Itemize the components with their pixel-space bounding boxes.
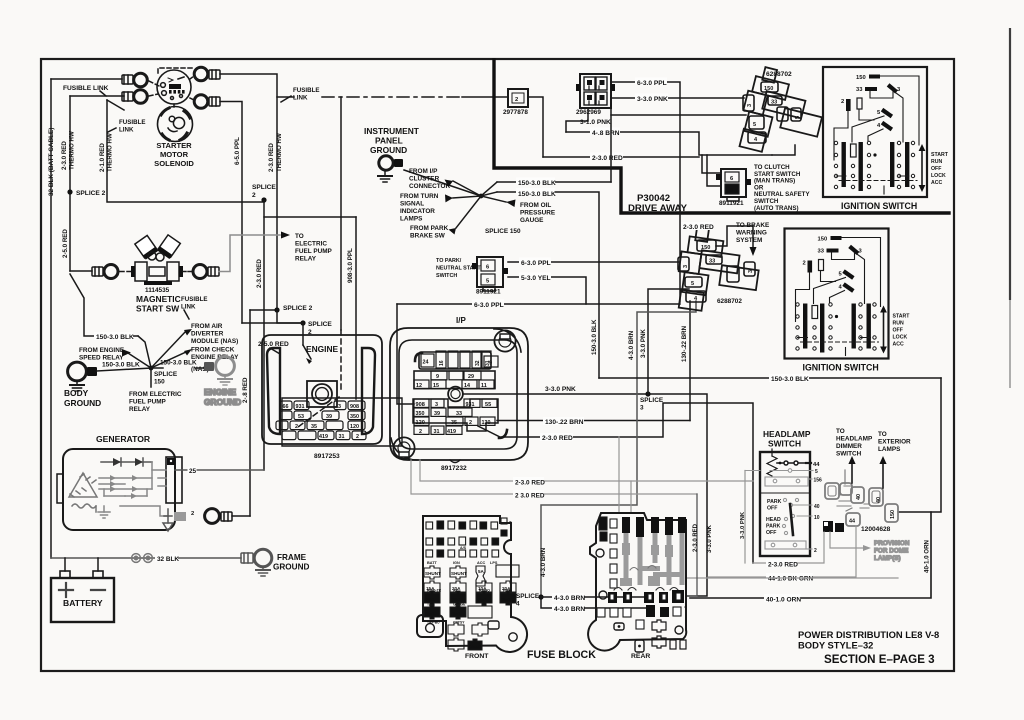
svg-text:SPLICE: SPLICE — [154, 371, 178, 378]
svg-text:44: 44 — [813, 462, 820, 468]
svg-text:DIVERTER: DIVERTER — [191, 331, 224, 338]
svg-text:TO: TO — [836, 428, 845, 435]
svg-text:2: 2 — [356, 434, 359, 440]
svg-text:2977878: 2977878 — [503, 109, 528, 116]
svg-text:8911921: 8911921 — [719, 200, 744, 207]
SEC-CENTER — [262, 60, 949, 596]
dashed links to solenoid — [149, 81, 159, 86]
svg-text:8911921: 8911921 — [476, 289, 501, 296]
wire 40-1.0 ORN — [690, 512, 931, 598]
wire 2-3.0 RED gray b — [411, 460, 697, 494]
svg-text:FUSIBLE: FUSIBLE — [293, 87, 319, 94]
ring terminal MR — [193, 265, 207, 279]
dashed diag — [340, 330, 342, 393]
svg-text:3-3.0 PNK: 3-3.0 PNK — [640, 329, 647, 358]
svg-text:39: 39 — [326, 414, 332, 420]
svg-text:14: 14 — [464, 383, 470, 389]
svg-text:ENGINE: ENGINE — [204, 387, 237, 397]
svg-text:TO PARK/: TO PARK/ — [436, 258, 462, 264]
svg-text:GAUGE: GAUGE — [520, 217, 544, 224]
svg-text:LOCK: LOCK — [931, 173, 946, 179]
svg-text:IGNITION SWITCH: IGNITION SWITCH — [841, 201, 917, 211]
svg-text:350: 350 — [416, 411, 425, 417]
wire dashed long to 2977878 — [322, 96, 462, 98]
svg-text:SPLICE 150: SPLICE 150 — [485, 228, 521, 235]
svg-text:40: 40 — [814, 504, 820, 510]
svg-text:THERMO HW: THERMO HW — [276, 133, 283, 172]
wire 44-1.0 DK GRN — [708, 526, 856, 583]
svg-text:OFF: OFF — [766, 530, 776, 536]
svg-text:2: 2 — [814, 548, 817, 554]
svg-text:REAR: REAR — [631, 653, 650, 660]
svg-text:130-.22 BRN: 130-.22 BRN — [681, 325, 688, 362]
svg-text:2-3.0 RED: 2-3.0 RED — [592, 155, 623, 162]
svg-text:LAMPS: LAMPS — [400, 216, 423, 223]
ears — [494, 329, 521, 352]
svg-text:419: 419 — [447, 429, 456, 435]
svg-text:SYSTEM: SYSTEM — [736, 237, 762, 244]
wire 3-3.0 PNK from IP — [463, 394, 707, 596]
svg-text:BRAKE SW: BRAKE SW — [410, 233, 446, 240]
wire 3-1.0 PNK — [566, 108, 588, 132]
svg-text:12: 12 — [416, 383, 422, 389]
svg-text:FUSIBLE: FUSIBLE — [181, 296, 207, 303]
svg-text:6-3.0 PPL: 6-3.0 PPL — [521, 260, 551, 267]
ring terminal L2 — [122, 90, 147, 104]
connector 2962969 — [576, 74, 615, 116]
svg-text:STARTER: STARTER — [156, 141, 192, 150]
svg-text:ACC: ACC — [931, 180, 942, 186]
svg-text:419: 419 — [319, 434, 328, 440]
SEC-LEFT — [48, 67, 339, 622]
connector 6288702 upper — [735, 64, 831, 163]
svg-text:LAMP(S): LAMP(S) — [874, 555, 901, 562]
svg-text:9: 9 — [436, 374, 439, 380]
svg-text:130: 130 — [482, 420, 491, 426]
svg-text:4-3.0 BRN: 4-3.0 BRN — [628, 330, 635, 360]
wire rear block to 150 sq — [686, 577, 898, 579]
frame ground ring — [241, 553, 253, 563]
svg-text:SIGNAL: SIGNAL — [400, 201, 424, 208]
svg-text:LINK: LINK — [119, 127, 134, 134]
svg-text:150-3.0 BLK: 150-3.0 BLK — [102, 362, 140, 369]
svg-text:3-3.0 PNK: 3-3.0 PNK — [707, 524, 713, 553]
svg-text:120: 120 — [350, 424, 359, 430]
svg-text:3-3.0 PNK: 3-3.0 PNK — [545, 386, 576, 393]
wire 6-3.0 PPL lower — [397, 303, 680, 305]
wire ring to splice150 — [97, 368, 151, 371]
svg-text:6-3.0 PPL: 6-3.0 PPL — [637, 80, 667, 87]
wire 150-3.0 BLK a — [497, 181, 611, 183]
wire 2-3.0 RED from IP — [478, 403, 753, 563]
svg-text:RELAY: RELAY — [129, 406, 151, 413]
svg-text:10: 10 — [814, 515, 820, 521]
svg-text:908: 908 — [416, 402, 425, 408]
border frame — [41, 59, 954, 671]
riser 130-.22 BRN — [689, 301, 691, 421]
svg-text:15A: 15A — [452, 611, 461, 616]
svg-text:66: 66 — [283, 404, 289, 410]
I/P center circle — [448, 387, 463, 402]
svg-text:11: 11 — [481, 383, 487, 389]
wire 3-3.0 PNK top — [611, 97, 744, 99]
svg-text:16: 16 — [439, 360, 445, 366]
svg-text:120: 120 — [416, 420, 425, 426]
svg-text:FUSIBLE LINK: FUSIBLE LINK — [63, 85, 109, 92]
splice 2 dot a — [67, 189, 72, 194]
svg-text:POWER DISTRIBUTION LE8 V-8: POWER DISTRIBUTION LE8 V-8 — [798, 629, 939, 640]
svg-text:SECTION E–PAGE 3: SECTION E–PAGE 3 — [824, 653, 935, 666]
front terminals grid — [424, 518, 519, 651]
svg-text:931: 931 — [466, 402, 475, 408]
ring terminal R1 + wire right — [190, 67, 220, 81]
delta winding — [69, 473, 97, 497]
svg-text:130-.22 BRN: 130-.22 BRN — [545, 419, 584, 426]
svg-text:150: 150 — [856, 75, 866, 81]
svg-text:BODY STYLE–32: BODY STYLE–32 — [798, 640, 873, 651]
svg-text:6-3.0 PPL: 6-3.0 PPL — [474, 302, 504, 309]
svg-text:3: 3 — [640, 405, 644, 412]
svg-text:HEADLAMP: HEADLAMP — [763, 429, 811, 439]
wire y323 from 6-5.0PPL to splice2c — [242, 322, 303, 324]
svg-text:PRESSURE: PRESSURE — [520, 210, 556, 217]
svg-text:FROM TURN: FROM TURN — [400, 193, 439, 200]
svg-text:GROUND: GROUND — [370, 145, 407, 155]
svg-text:START SW: START SW — [136, 304, 179, 314]
svg-text:RUN: RUN — [931, 159, 942, 165]
svg-text:2 3.0 RED: 2 3.0 RED — [515, 493, 545, 500]
splice 150 star — [149, 366, 154, 371]
svg-text:908: 908 — [350, 404, 359, 410]
left vertical into headlamp area — [745, 470, 760, 472]
I/P second block — [414, 371, 495, 389]
wire 2-3.0 RED gray to cluster — [753, 532, 824, 569]
risers into rear block top — [618, 437, 620, 513]
svg-text:OFF: OFF — [931, 166, 941, 172]
svg-text:3: 3 — [748, 270, 754, 273]
svg-text:25: 25 — [189, 468, 197, 475]
generator — [57, 434, 264, 531]
svg-text:3-1.0 PNK: 3-1.0 PNK — [580, 119, 611, 126]
wires into 8911921 right — [702, 155, 721, 173]
svg-text:9: 9 — [489, 361, 492, 367]
svg-text:931: 931 — [296, 404, 305, 410]
svg-text:4-3.0 BRN: 4-3.0 BRN — [540, 547, 547, 577]
svg-text:FRONT: FRONT — [465, 653, 489, 660]
svg-text:TRF-BU: TRF-BU — [427, 621, 440, 625]
magnetic start switch — [62, 229, 219, 314]
wire 2-5.0 RED diag into engine conn — [302, 323, 304, 345]
svg-text:CONNECTOR: CONNECTOR — [409, 183, 450, 190]
svg-text:2-5.0 RED: 2-5.0 RED — [62, 229, 69, 258]
svg-text:1114535: 1114535 — [145, 287, 170, 294]
splice2 b horizontal to x250 — [250, 309, 277, 311]
svg-text:INSTRUMENT: INSTRUMENT — [364, 126, 420, 136]
svg-text:INDICATOR: INDICATOR — [400, 208, 435, 215]
wire 130-.22 BRN from IP — [497, 420, 690, 422]
svg-text:29: 29 — [468, 374, 474, 380]
svg-text:4-.8 BRN: 4-.8 BRN — [592, 130, 620, 137]
svg-text:BATT: BATT — [427, 561, 438, 565]
angled cylinders — [135, 235, 158, 259]
svg-text:BODY: BODY — [64, 388, 89, 398]
svg-text:8917232: 8917232 — [441, 465, 467, 472]
fuse block rear — [588, 513, 686, 660]
svg-text:SPLICE: SPLICE — [252, 184, 276, 191]
wire 2-3.0 RED vertical — [69, 96, 71, 271]
svg-text:12004628: 12004628 — [861, 526, 891, 533]
body ground ring — [68, 362, 87, 381]
svg-text:LPS: LPS — [490, 561, 498, 565]
svg-text:MODULE (NAS): MODULE (NAS) — [191, 338, 238, 345]
internal wires — [880, 76, 919, 145]
svg-text:ENGINE: ENGINE — [306, 344, 339, 354]
page edge line right — [1009, 28, 1011, 300]
svg-text:PANEL: PANEL — [375, 136, 403, 146]
svg-text:LINK: LINK — [181, 304, 196, 311]
svg-text:40: 40 — [856, 494, 862, 500]
svg-text:2: 2 — [252, 192, 256, 199]
svg-text:EXTERIOR: EXTERIOR — [878, 439, 911, 446]
svg-text:SWITCH: SWITCH — [436, 273, 457, 279]
wire 2-3.0 RED to brake — [716, 226, 753, 246]
svg-text:150-3.0 BLK: 150-3.0 BLK — [160, 360, 197, 367]
svg-text:2-3.0 RED: 2-3.0 RED — [61, 141, 68, 170]
provision for dome lamps — [830, 532, 910, 562]
wire 2962969 pin to 150BLK line — [610, 104, 612, 182]
I/P main grid — [413, 399, 498, 435]
svg-text:FROM PARK: FROM PARK — [410, 225, 449, 232]
svg-text:33: 33 — [771, 100, 777, 106]
svg-text:55: 55 — [485, 402, 491, 408]
svg-text:2: 2 — [191, 511, 194, 517]
ring terminal R2 + wire 6-5.0 PPL — [190, 95, 220, 109]
svg-text:908-3.0 PPL: 908-3.0 PPL — [347, 248, 354, 283]
svg-text:4-3.0 BRN: 4-3.0 BRN — [554, 595, 585, 602]
thick P30042 boundary — [494, 60, 949, 213]
svg-text:SHUNT: SHUNT — [425, 571, 441, 576]
svg-text:5-3.0 YEL: 5-3.0 YEL — [521, 275, 551, 282]
wire into pin5 — [611, 114, 746, 116]
wire 4-3.0 BRN b — [541, 597, 650, 608]
svg-text:3-3.0 PNK: 3-3.0 PNK — [740, 511, 746, 539]
svg-text:2: 2 — [841, 99, 844, 105]
svg-text:4-3.0 BRN: 4-3.0 BRN — [554, 606, 585, 613]
svg-text:6-5.0 PPL: 6-5.0 PPL — [234, 137, 241, 165]
svg-text:BATTERY: BATTERY — [63, 598, 103, 608]
ignition switch box 1 — [823, 67, 949, 211]
regulator wires to right — [152, 470, 166, 486]
svg-text:MAGNETIC: MAGNETIC — [136, 294, 181, 304]
svg-text:HEADLAMP: HEADLAMP — [836, 436, 873, 443]
svg-text:THERMO HW: THERMO HW — [69, 131, 76, 170]
svg-text:2: 2 — [515, 97, 518, 103]
headlamp switch — [760, 429, 822, 556]
svg-text:FROM ELECTRIC: FROM ELECTRIC — [129, 391, 182, 398]
slider bars — [842, 142, 846, 187]
svg-text:FUSE BLOCK: FUSE BLOCK — [527, 649, 596, 661]
svg-text:RELAY: RELAY — [295, 256, 317, 263]
wire x250 down to generator ring — [249, 310, 251, 516]
svg-text:SHUNT: SHUNT — [451, 571, 467, 576]
wire 4-.8 BRN into blob — [772, 145, 795, 155]
svg-text:GROUND: GROUND — [273, 563, 309, 572]
svg-text:4: 4 — [516, 601, 520, 608]
32 BLK to frame ground — [51, 549, 309, 576]
splice 150 center star — [400, 168, 556, 240]
riser 4-3.0 BRN — [541, 301, 696, 594]
svg-text:SPLICE 2: SPLICE 2 — [283, 305, 313, 312]
shunt row — [424, 561, 519, 651]
svg-text:TO: TO — [295, 233, 304, 240]
svg-text:24: 24 — [423, 360, 429, 366]
svg-text:FROM I/P: FROM I/P — [409, 168, 438, 175]
svg-text:2-3.0 RED: 2-3.0 RED — [768, 562, 798, 569]
wire 2977878 to 2-3.0 RED line — [528, 97, 543, 157]
svg-text:25A: 25A — [478, 597, 487, 602]
svg-text:FROM CHECK: FROM CHECK — [191, 347, 235, 354]
connector 8911921 left — [472, 257, 508, 296]
svg-text:6288702: 6288702 — [766, 71, 792, 78]
diodes top row — [101, 461, 152, 463]
svg-text:35: 35 — [451, 420, 457, 426]
position arrow — [921, 150, 923, 186]
wire top to ring L1 — [51, 78, 122, 80]
svg-text:ACC: ACC — [477, 561, 485, 565]
svg-text:ELECTRIC: ELECTRIC — [295, 241, 327, 248]
svg-text:WARNING: WARNING — [736, 230, 767, 237]
svg-text:32 BLK: 32 BLK — [157, 556, 179, 563]
svg-text:5: 5 — [815, 469, 818, 475]
wire 150-3.0 BLK lower long — [599, 377, 941, 379]
svg-text:CLUSTER: CLUSTER — [409, 176, 440, 183]
svg-text:3-3.0 PNK: 3-3.0 PNK — [637, 96, 668, 103]
svg-text:SOLENOID: SOLENOID — [154, 159, 194, 168]
svg-text:2-3.0 RED: 2-3.0 RED — [542, 435, 573, 442]
SEC-BOTTOM — [411, 437, 898, 661]
svg-text:5: 5 — [795, 116, 801, 119]
wire 2-3.0 RED gray a — [411, 437, 898, 578]
svg-text:2-3.0 RED: 2-3.0 RED — [515, 480, 545, 487]
svg-text:2-3.0 RED: 2-3.0 RED — [683, 224, 714, 231]
svg-text:GROUND: GROUND — [64, 398, 101, 408]
svg-text:TO BRAKE: TO BRAKE — [736, 222, 770, 229]
svg-text:GROUND: GROUND — [204, 397, 241, 407]
svg-text:OFF: OFF — [767, 506, 777, 512]
splice2 c — [277, 310, 303, 323]
wire 908-3.0 PPL — [340, 97, 342, 330]
svg-text:32 BLK (BATT CABLE): 32 BLK (BATT CABLE) — [48, 128, 55, 196]
wire from 2-3.0RED to ring — [70, 270, 92, 272]
svg-text:SPEED RELAY: SPEED RELAY — [79, 355, 124, 362]
svg-text:LINK: LINK — [293, 95, 308, 102]
battery — [51, 558, 114, 622]
svg-text:350: 350 — [350, 414, 359, 420]
svg-text:FROM AIR: FROM AIR — [191, 323, 223, 330]
svg-text:5: 5 — [691, 281, 694, 287]
svg-text:FUSIBLE: FUSIBLE — [119, 119, 145, 126]
bottom terminal — [120, 506, 168, 516]
body ground splice150 area — [64, 274, 239, 413]
ring terminal ML — [92, 267, 103, 276]
ring terminal L1 — [122, 73, 147, 87]
svg-text:DIMMER: DIMMER — [836, 443, 862, 450]
svg-text:2: 2 — [469, 420, 472, 426]
svg-text:31: 31 — [339, 434, 345, 440]
svg-text:2-3.0 RED: 2-3.0 RED — [693, 523, 699, 552]
svg-text:DM-LP: DM-LP — [469, 645, 481, 649]
svg-text:SPLICE: SPLICE — [308, 321, 332, 328]
svg-text:32: 32 — [475, 360, 481, 366]
wire 4-.8 BRN — [566, 132, 772, 155]
svg-text:25A: 25A — [502, 597, 511, 602]
svg-text:START: START — [931, 152, 949, 158]
wire 6-3.0 PPL mid — [508, 261, 680, 263]
svg-text:2: 2 — [295, 424, 298, 430]
svg-text:3: 3 — [683, 265, 689, 268]
wire 2-3.0 RED riser right — [686, 494, 697, 596]
svg-text:53: 53 — [298, 414, 304, 420]
svg-text:FUEL PUMP: FUEL PUMP — [295, 248, 333, 255]
svg-text:2-.8 RED: 2-.8 RED — [242, 377, 249, 403]
wire from mag area down to 150 blk label — [70, 274, 138, 336]
wire 32 BLK batt cable vertical — [50, 79, 52, 558]
svg-text:44-1.0 DK GRN: 44-1.0 DK GRN — [768, 576, 813, 583]
svg-text:44: 44 — [849, 519, 855, 525]
svg-text:2-1.0 RED: 2-1.0 RED — [99, 143, 106, 172]
splice 2 dot b — [261, 197, 266, 202]
svg-text:2-3.0 RED: 2-3.0 RED — [268, 143, 275, 172]
svg-text:20A: 20A — [426, 597, 435, 602]
svg-text:FROM ENGINE: FROM ENGINE — [79, 347, 125, 354]
rheostat — [767, 456, 777, 476]
svg-text:PROVISION: PROVISION — [874, 540, 910, 547]
wire 2-1.0 RED THERMO HW — [107, 100, 264, 202]
svg-text:NEUTRAL START: NEUTRAL START — [436, 266, 481, 272]
svg-text:5A: 5A — [478, 569, 485, 574]
svg-text:35: 35 — [311, 424, 317, 430]
svg-text:15A: 15A — [426, 611, 435, 616]
contacts — [834, 141, 914, 188]
svg-text:3: 3 — [338, 404, 341, 410]
wire 4-3.0 BRN a — [541, 596, 650, 598]
rear internals — [597, 517, 686, 629]
wire 150-3.0 BLK b — [497, 192, 599, 378]
connector 6288702 lower — [674, 226, 764, 318]
svg-text:150-3.0 BLK: 150-3.0 BLK — [771, 376, 809, 383]
25 output — [175, 469, 264, 471]
svg-text:(AUTO TRANS): (AUTO TRANS) — [754, 205, 799, 212]
engine grid cells — [276, 401, 366, 440]
svg-text:150-3.0 BLK: 150-3.0 BLK — [518, 191, 556, 198]
fuse block front — [417, 516, 527, 660]
ignition switch box 2 — [785, 229, 911, 373]
svg-text:2: 2 — [419, 429, 422, 435]
ring terminal to x250 wire — [205, 509, 220, 524]
svg-text:150: 150 — [701, 245, 710, 251]
splice3 riser 3-3.0 PNK — [648, 289, 689, 394]
svg-text:150: 150 — [154, 379, 165, 386]
svg-text:2-3.0 RED: 2-3.0 RED — [256, 259, 263, 288]
svg-text:156: 156 — [814, 478, 823, 484]
wire to electric fuel pump relay — [219, 235, 280, 272]
wire 5-3.0 YEL — [508, 277, 586, 304]
svg-text:SWITCH: SWITCH — [768, 439, 801, 449]
starter solenoid upper circle — [157, 70, 191, 104]
svg-text:150-3.0 BLK: 150-3.0 BLK — [96, 334, 134, 341]
SEC-RIGHT — [599, 64, 949, 666]
engine connector 8917253 — [262, 330, 402, 460]
